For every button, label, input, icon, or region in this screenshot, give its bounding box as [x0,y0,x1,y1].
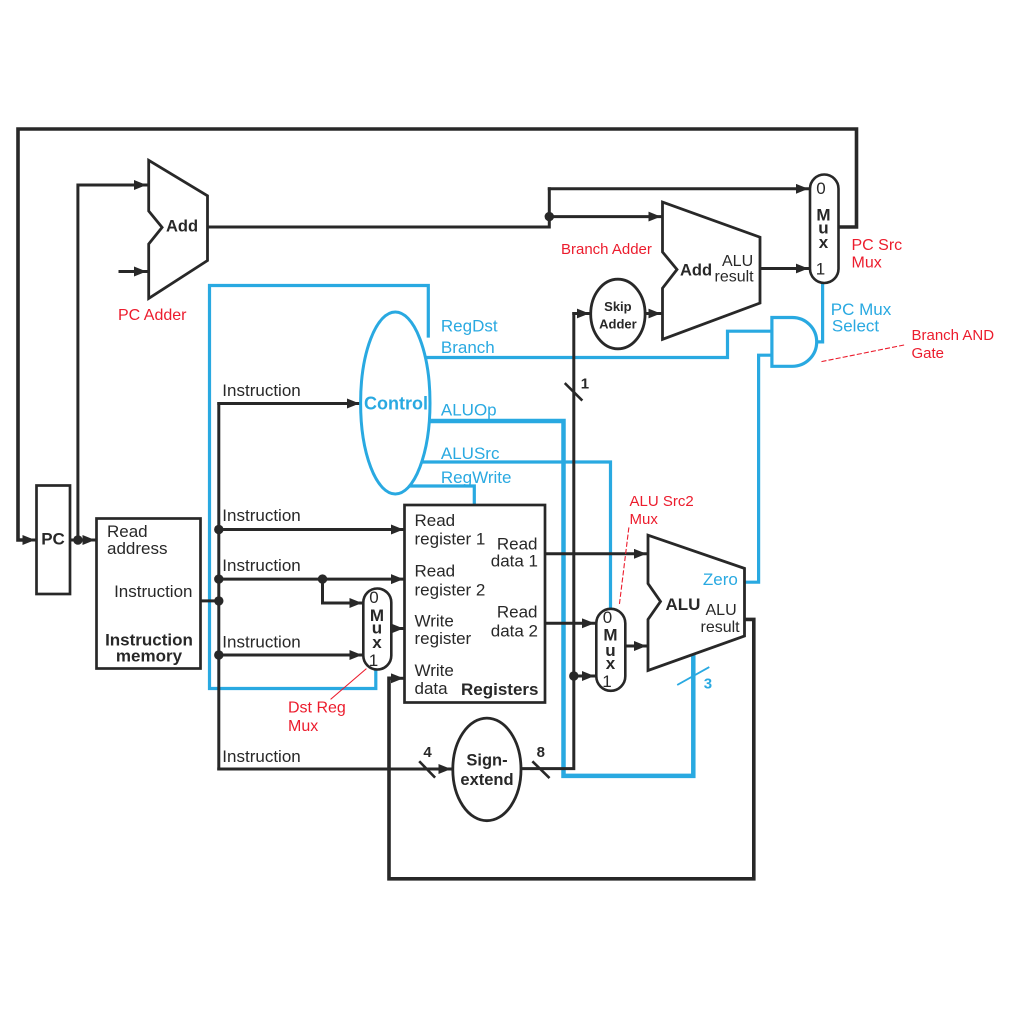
wire tap to branch adder upper input [549,215,660,218]
sign-extend ellipse [453,718,521,821]
wire control ALUOp bus to ALU control [429,421,693,776]
svg-text:Read: Read [415,511,456,530]
wire into ALU src2 mux input 1 [574,675,594,678]
wire instruction memory output to bus [201,599,219,602]
svg-text:Instruction: Instruction [222,633,300,652]
svg-text:Gate: Gate [912,345,945,362]
svg-text:ALUSrc: ALUSrc [441,444,500,463]
wire PC adder output to PC-src mux input 0 [208,189,549,227]
svg-text:data 1: data 1 [491,552,538,571]
svg-text:x: x [372,633,382,652]
svg-text:4: 4 [423,744,432,761]
svg-text:Write: Write [415,611,454,630]
node dot instruction line 1 [214,525,223,534]
adder branch adder trapezoid [663,202,761,339]
svg-text:Adder: Adder [599,316,637,331]
wire control ALUSrc signal to ALU src2 mux select [422,462,611,608]
wire arrow into PC [20,539,35,542]
wire AND gate output to PC-src mux select [817,285,823,342]
svg-text:address: address [107,539,167,558]
svg-text:ALU: ALU [706,602,737,619]
gate branch AND gate [772,318,817,367]
node dot instruction line 2 [214,574,223,583]
svg-text:3: 3 [704,676,712,693]
svg-text:memory: memory [116,647,183,666]
svg-text:PC Src: PC Src [852,237,903,254]
wire control RegDst signal to dst reg mux select [210,286,429,689]
svg-text:Read: Read [415,562,456,581]
svg-text:Mux: Mux [630,511,659,528]
svg-text:Branch: Branch [441,338,495,357]
ALU trapezoid [648,535,745,670]
annotation line ALU src2 mux [619,528,629,606]
wire instruction bus vertical [217,404,220,770]
svg-text:ALU Src2: ALU Src2 [630,493,694,510]
wire ALU Zero output up to AND gate [745,355,771,582]
svg-text:0: 0 [603,608,612,627]
node junction dot on PC+4 line [545,212,554,221]
svg-text:RegWrite: RegWrite [441,468,512,487]
svg-text:Add: Add [166,217,198,235]
wire instruction to dst reg mux input 1 [219,654,362,657]
mux dst register [363,589,391,670]
wire dst reg mux output to write register [392,627,404,630]
skip adder ellipse [591,279,645,349]
node junction dot feeding ALU src2 mux input 1 [569,671,578,680]
wire instruction to read register 2 [219,578,403,581]
svg-text:Read: Read [497,535,538,554]
svg-text:register: register [415,629,472,648]
wire stub arrow into PC adder lower input [120,270,146,273]
wire control Branch signal to AND gate [425,331,770,357]
wire read data 2 to ALU src2 mux input 0 [545,622,594,625]
svg-text:Mux: Mux [288,718,318,735]
bus width slash 3 on ALU control bus [678,668,709,685]
wire skip adder output to branch adder lower input [645,312,660,315]
svg-text:1: 1 [602,672,611,691]
annotation line dst reg mux [331,669,366,699]
svg-text:RegDst: RegDst [441,317,498,336]
wire control RegWrite signal to registers [410,486,475,504]
bus width slash 8 on sign-extend output [533,762,548,777]
svg-text:data 2: data 2 [491,622,538,641]
instruction memory box [97,519,201,669]
wire instruction to sign-extend [219,768,451,771]
svg-text:Read: Read [497,603,538,622]
svg-text:1: 1 [369,651,378,670]
wire ALU src2 mux output to ALU [626,645,647,648]
svg-text:Skip: Skip [604,299,632,314]
svg-text:PC: PC [41,530,65,549]
svg-text:Write: Write [415,661,454,680]
wire PC output to instruction memory read address [70,539,95,542]
svg-text:ALU: ALU [722,253,753,270]
node junction dot on PC output [73,535,82,544]
svg-text:Add: Add [680,262,712,280]
svg-text:Instruction: Instruction [222,747,300,766]
svg-text:Instruction: Instruction [222,381,300,400]
bus width slash 1 on skip-adder line [566,384,582,400]
wire tap down into dst reg mux input 0 [321,579,324,603]
wire instruction to read register 1 [219,528,403,531]
wire instruction to control [219,402,258,405]
svg-text:Branch Adder: Branch Adder [561,241,652,258]
svg-text:0: 0 [369,588,378,607]
mux PC source (top right) [810,175,839,284]
svg-text:Instruction: Instruction [222,556,300,575]
svg-text:ALUOp: ALUOp [441,401,497,420]
svg-text:Branch AND: Branch AND [912,327,995,344]
svg-text:Instruction: Instruction [222,506,300,525]
wire ALU result loop back to write data [389,619,754,878]
node dot memory output [214,596,223,605]
svg-text:Instruction: Instruction [114,582,192,601]
svg-text:x: x [819,233,829,252]
svg-text:x: x [606,654,616,673]
svg-text:Zero: Zero [703,570,738,589]
svg-text:PC Adder: PC Adder [118,307,187,324]
svg-text:0: 0 [816,179,825,198]
svg-text:Mux: Mux [852,255,882,272]
PC register box [37,486,71,595]
wire sign-extend output rising to skip adder [521,314,574,769]
svg-text:ALU: ALU [666,595,701,614]
svg-text:register 1: register 1 [415,529,486,548]
control unit ellipse [361,312,430,494]
wire branch adder output to PC-src mux input 1 [761,267,808,270]
svg-text:8: 8 [537,744,545,761]
mux ALU src2 [596,609,625,691]
svg-text:Select: Select [832,317,880,336]
svg-text:1: 1 [816,259,825,278]
registers box [405,505,546,703]
svg-text:data: data [415,679,449,698]
wire PC-src mux output feedback loop to PC [18,129,857,540]
svg-text:Dst Reg: Dst Reg [288,700,346,717]
node dot on read register 2 line [318,574,327,583]
node dot instruction line 3 [214,650,223,659]
bus width slash 4 on sign-extend input [420,762,434,777]
wire PC output up to PC adder input [78,185,146,540]
svg-text:1: 1 [581,376,589,393]
svg-text:result: result [715,269,755,286]
svg-text:Control: Control [364,394,428,414]
svg-text:register 2: register 2 [415,581,486,600]
svg-text:Registers: Registers [461,680,538,699]
svg-text:extend: extend [460,771,513,789]
svg-text:Sign-: Sign- [466,752,507,770]
svg-text:result: result [701,619,741,636]
wire read data 1 to ALU [545,552,646,555]
adder PC adder trapezoid [149,160,208,298]
annotation line branch AND gate [822,345,904,362]
